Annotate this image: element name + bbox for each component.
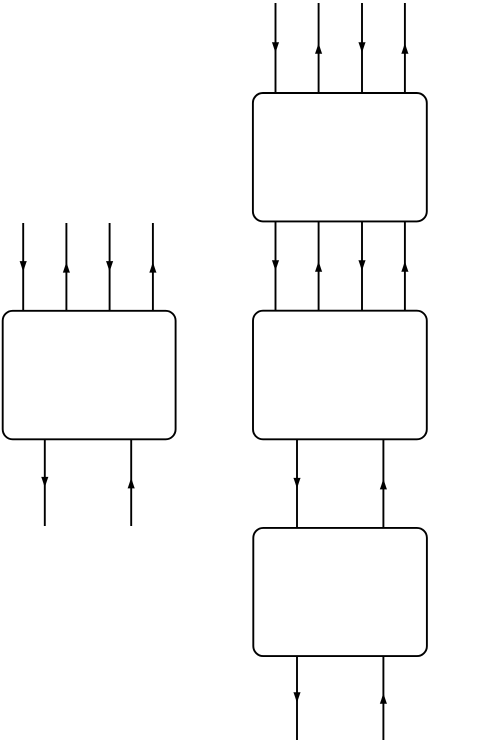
box L1 (left coarse-graining block) [3, 311, 176, 440]
wire L1 input 1 (down arrow) [20, 223, 27, 311]
box R3 (bottom right block) [253, 528, 427, 656]
wire L1 output 1 (down arrow) [41, 439, 48, 526]
wire R1 input 1 (down arrow) [272, 3, 279, 93]
wire R3 output 2 (up arrow) [380, 656, 387, 740]
wire R1 input 2 (up arrow) [315, 3, 322, 93]
wire R1-R2 link 4 (up arrow) [401, 221, 408, 310]
wire R2-R3 link 2 (up arrow) [380, 439, 387, 528]
box R2 (middle right block) [253, 311, 427, 440]
wire R1 input 3 (down arrow) [358, 3, 365, 93]
wire R1-R2 link 3 (down arrow) [358, 221, 365, 310]
wire L1 output 2 (up arrow) [128, 439, 135, 526]
wire R1-R2 link 1 (down arrow) [272, 221, 279, 310]
wire R1 input 4 (up arrow) [401, 3, 408, 93]
box R1 (top right block) [253, 93, 427, 221]
wire L1 input 4 (up arrow) [149, 223, 156, 311]
wire R3 output 1 (down arrow) [293, 656, 300, 740]
wire R1-R2 link 2 (up arrow) [315, 221, 322, 310]
wire L1 input 3 (down arrow) [106, 223, 113, 311]
wire L1 input 2 (up arrow) [63, 223, 70, 311]
wire R2-R3 link 1 (down arrow) [293, 439, 300, 528]
